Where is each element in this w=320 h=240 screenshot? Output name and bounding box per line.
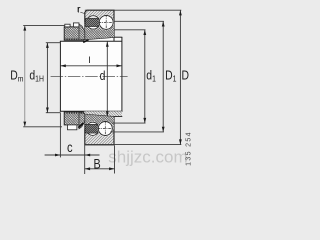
svg-text:D: D [181,69,189,83]
svg-text:l: l [88,55,90,66]
svg-text:d: d [100,69,106,83]
svg-text:B: B [94,156,101,171]
svg-text:135 254: 135 254 [185,131,192,166]
svg-text:c: c [67,140,73,155]
svg-text:shjjzc.com: shjjzc.com [108,148,187,167]
